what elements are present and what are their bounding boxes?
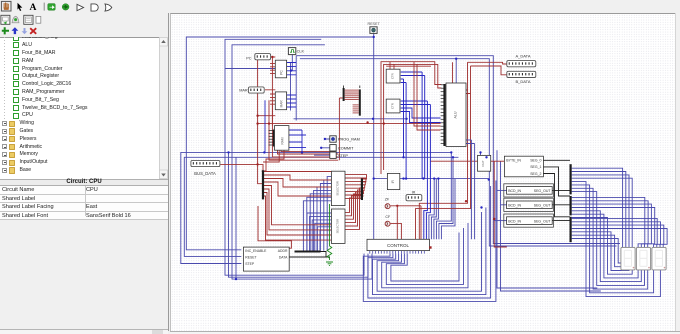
wire seg bus b1-1: [572, 172, 626, 248]
svg-text:BUS_DATA: BUS_DATA: [194, 171, 216, 176]
wire red mar feed 2: [258, 123, 441, 125]
svg-text:SELECTOR: SELECTOR: [336, 181, 340, 195]
wire red out chain: [430, 160, 478, 162]
wire control U 4: [382, 223, 468, 288]
wire red selector2 right 0: [345, 198, 362, 212]
wire byte_in outputs: [543, 159, 570, 161]
splitter bar 1: [569, 164, 571, 194]
wire alu right outputs: [466, 140, 471, 239]
wire seg bus b2-5: [572, 214, 639, 278]
rom CONTROL: [367, 239, 430, 250]
wire reg A long down 2: [401, 83, 406, 179]
wire red cf to control: [391, 223, 402, 239]
wire alu top stub2: [452, 62, 454, 83]
register OUT: [478, 155, 491, 171]
wire selector left blue 1: [324, 180, 332, 251]
wire control stair 4: [439, 157, 453, 239]
wire blue outer loop left/top: [186, 37, 373, 250]
wire selector left blue 2: [320, 184, 331, 251]
wire reg B long outputs: [401, 101, 428, 239]
wire alu top loop: [455, 59, 457, 83]
wire selector left blue 4: [314, 190, 332, 250]
wire red selector right 5: [345, 192, 363, 194]
wire seg bus b1-0: [572, 168, 623, 247]
wire ram down to bus splitter: [262, 150, 284, 171]
input pin COMMIT: [330, 145, 336, 151]
wire selector2 left blue 1: [310, 216, 332, 250]
wire red splitter fan 4: [264, 186, 331, 225]
wire seg bus b1-5: [572, 185, 654, 293]
wire red selector2 right 5: [345, 188, 362, 229]
wire red alu right down 1: [419, 62, 467, 239]
wire blue outer bottom loop: [235, 157, 237, 279]
svg-text:SEG_OUT: SEG_OUT: [534, 219, 552, 223]
wire blue vertical reset: [373, 34, 375, 240]
canvas right scroll strip: [675, 13, 680, 331]
wire red selector right 1: [345, 178, 366, 182]
wire blue right vertical 2: [501, 162, 601, 292]
wire red splitter fan 1: [264, 175, 331, 180]
svg-text:RESET: RESET: [245, 256, 256, 260]
wire pc stubs: [270, 57, 275, 74]
wire red splitter fan 3: [264, 182, 331, 196]
svg-text:IR: IR: [412, 190, 416, 194]
register B CTR: [386, 99, 400, 113]
svg-text:STEP: STEP: [245, 262, 255, 266]
wire control U 2: [373, 208, 486, 295]
wire seg bus b3-1: [572, 222, 661, 248]
svg-text:MAR: MAR: [280, 100, 284, 108]
wire seg bus b2-0: [572, 197, 645, 247]
subcircuit BCD_IN 2: [504, 198, 554, 211]
svg-text:BYTE_IN: BYTE_IN: [506, 159, 521, 163]
register IR: [387, 173, 399, 189]
wire blue loop 3: [232, 45, 372, 279]
splitter horizontal: [295, 251, 321, 253]
wire reg A long down 1: [401, 79, 404, 157]
svg-text:BCD_IN: BCD_IN: [508, 204, 521, 208]
register A CTR: [386, 69, 400, 83]
wire control stair 0: [429, 179, 434, 240]
svg-text:B_DATA: B_DATA: [516, 79, 531, 84]
wire seg bus b2-3: [572, 208, 655, 248]
wire red selector right 2: [345, 181, 365, 184]
wire selector left blue 5: [310, 194, 331, 251]
wire red selector2 right 4: [345, 190, 362, 226]
wire bcd left stubs: [497, 189, 507, 191]
wire blue mid horizontal 118.8: [294, 118, 407, 120]
splitter ladder left bar: [343, 88, 345, 101]
svg-text:BCD_IN: BCD_IN: [508, 219, 521, 223]
wire seg bus b3-2: [572, 225, 664, 247]
wire control U 1: [368, 186, 491, 298]
wire selector2 left blue 5: [320, 230, 331, 251]
wire selector2 left blue 3: [315, 223, 332, 251]
wire red selector right 0: [345, 175, 366, 179]
wire red selector right 7: [345, 197, 362, 200]
wire prog_ram stubs: [314, 139, 330, 155]
wire red splitter fan 0: [264, 171, 331, 173]
svg-text:ALU: ALU: [454, 111, 458, 118]
ladder feed left: [339, 98, 342, 160]
property header + table: [0, 179, 168, 186]
svg-text:ZF: ZF: [385, 197, 390, 201]
wire selector left blue 6: [307, 197, 332, 251]
splitter bar selector right: [361, 178, 363, 200]
wire bcd outputs: [552, 189, 570, 191]
svg-text:PROG_RAM: PROG_RAM: [338, 138, 360, 142]
svg-text:A: A: [30, 2, 37, 13]
mux SELECTOR 2: [331, 209, 345, 243]
wire selector left blue 0: [327, 177, 331, 251]
wire red selector right 4: [345, 188, 364, 190]
wire red selector right 3: [345, 185, 365, 188]
svg-text:CTR: CTR: [391, 103, 395, 109]
wire seg bus b1-4: [572, 182, 661, 297]
wire reg A long outputs: [401, 72, 422, 179]
wire blue clk down: [291, 55, 293, 71]
toolbar: [0, 0, 170, 36]
pin connector BUS_DATA: [191, 160, 220, 166]
subcircuit BCD_IN 1: [504, 184, 554, 197]
wire red right vertical 494: [494, 161, 507, 247]
clock CLK: [288, 48, 295, 55]
wire blue pc right verticals: [290, 63, 292, 111]
mux SELECTOR 1: [331, 171, 345, 205]
ladder top stub: [344, 86, 360, 89]
pin connector B_DATA: [507, 71, 536, 77]
wire selector left blue 7: [303, 201, 331, 251]
wire seg bus b2-2: [572, 204, 652, 247]
wire blue top bus to right 2: [300, 59, 617, 246]
wire selector2 left blue 2: [312, 220, 331, 251]
wire red zf to control: [391, 206, 421, 240]
wire seg bus b3-3: [572, 229, 668, 248]
wire ram right stubs: [289, 130, 306, 147]
wire control stair 1: [431, 179, 436, 240]
wire red splitter fan 6: [264, 193, 331, 236]
junction dots blue: [373, 36, 375, 38]
input pin STEP: [330, 152, 336, 158]
wire seg bus b1-2: [572, 175, 629, 248]
svg-text:CONTROL: CONTROL: [387, 243, 409, 248]
wire red splitter fan 2: [264, 179, 331, 188]
wire seg bus b1-7: [572, 192, 645, 286]
svg-text:SEG_0: SEG_0: [530, 159, 541, 163]
wire control stair 5: [441, 179, 455, 240]
memory RAM: [275, 126, 289, 151]
svg-text:SEG_OUT: SEG_OUT: [534, 204, 552, 208]
svg-text:STEP: STEP: [338, 154, 348, 158]
svg-text:OUT: OUT: [481, 160, 485, 167]
wire red selector2 right 3: [345, 192, 362, 223]
wire seg bus b2-6: [572, 218, 633, 275]
wire control stair 2: [434, 179, 439, 240]
wire seg bus b3-4: [572, 232, 629, 271]
wire selector2 left blue 4: [317, 227, 331, 251]
wire blue left vertical to control: [229, 152, 369, 277]
subcircuit BCD_IN 3: [504, 214, 554, 227]
resistor pull: [329, 204, 331, 246]
wire ram right long 1: [301, 130, 303, 153]
wire inc_enable data out: [289, 256, 330, 258]
wire control U 5: [386, 228, 463, 284]
control output pins: [369, 251, 371, 254]
wire red splitter fan 5: [264, 189, 331, 230]
svg-text:CF: CF: [385, 215, 391, 219]
wire red mar feed 1: [258, 115, 276, 117]
svg-text:SEG_1: SEG_1: [530, 165, 541, 169]
subcircuit INC_ENABLE: [243, 247, 289, 271]
svg-text:CTR: CTR: [391, 73, 395, 79]
svg-text:PC: PC: [280, 70, 284, 75]
wire red splitter fan 7: [264, 196, 331, 240]
wire seg bus b1-6: [572, 188, 648, 289]
register MAR: [275, 92, 286, 110]
svg-text:MAR: MAR: [239, 89, 248, 93]
alu input comb: [443, 84, 445, 146]
wire out top stubs: [481, 152, 487, 157]
wire red reg loop: [381, 62, 441, 174]
canvas: [170, 13, 675, 331]
wire seg bus b2-1: [572, 201, 649, 248]
input pin RESET: [370, 27, 377, 34]
wire seg bus b1-3: [572, 178, 633, 247]
wire red inc addr feed: [258, 206, 291, 248]
wire blue bus mid horizontal 1: [181, 152, 452, 263]
svg-text:ADDR: ADDR: [278, 249, 288, 253]
ground: [326, 262, 333, 266]
input pin PROG_RAM: [330, 136, 336, 142]
svg-text:SELECTOR: SELECTOR: [336, 219, 340, 233]
svg-text:CLK: CLK: [297, 50, 305, 54]
svg-text:INC_ENABLE: INC_ENABLE: [245, 249, 267, 253]
wire red alu right down 2: [416, 66, 471, 239]
splitter ladder right bar: [359, 89, 361, 115]
wire reg B to alu comb: [401, 108, 441, 118]
wire red vertical 257: [258, 57, 263, 184]
svg-text:SEG_2: SEG_2: [530, 172, 541, 176]
wire seg bus b2-4: [572, 211, 642, 282]
wire selector2 left blue 0: [307, 213, 331, 251]
wire red pc connector down: [271, 57, 273, 126]
svg-text:SEG_OUT: SEG_OUT: [534, 189, 552, 193]
wire mar stubs: [265, 90, 275, 104]
wire control U 3: [377, 212, 481, 291]
wire seg bus b3-0: [572, 218, 658, 247]
wire blue bus mid horizontal 2: [184, 157, 458, 256]
svg-text:PC: PC: [246, 56, 252, 60]
wire blue loop 2: [225, 39, 364, 275]
wire blue top bus to right 1: [296, 56, 620, 244]
svg-text:A_DATA: A_DATA: [516, 53, 531, 58]
svg-text:COMMIT: COMMIT: [338, 147, 354, 151]
panel divider: [168, 13, 169, 331]
wire blue v265: [264, 100, 266, 153]
wire blue IR horizontal: [374, 178, 489, 180]
wire red selector2 right 1: [345, 196, 362, 216]
bottom status strip: [170, 331, 680, 334]
splitter bar 3: [569, 217, 571, 242]
seven segment display 2: [636, 247, 650, 270]
register PC: [275, 60, 286, 78]
ram left comb: [273, 130, 275, 147]
left tree panel: [0, 37, 159, 179]
svg-text:BCD_IN: BCD_IN: [508, 189, 521, 193]
alu ALU: [446, 83, 466, 147]
tree scrollbar: [159, 37, 168, 179]
wire red comb feeds: [435, 85, 441, 89]
wire control U 0: [363, 181, 496, 302]
wire blue right vertical to displays: [497, 150, 597, 288]
wire selector left blue 3: [317, 187, 331, 251]
svg-text:RAM: RAM: [280, 137, 284, 144]
svg-text:RESET: RESET: [367, 22, 380, 26]
seven segment display 3: [652, 247, 666, 270]
junction dots red: [256, 115, 258, 117]
wire blue pc input: [225, 68, 275, 70]
wire red selector right 6: [345, 195, 363, 196]
wire red bus_data to splitter: [220, 165, 263, 171]
wire control stair 3: [436, 152, 451, 239]
subcircuit BYTE_IN: [504, 156, 543, 177]
splitter bar 2: [569, 196, 571, 215]
splitter bar bus_data: [262, 170, 264, 199]
wire control U 6: [391, 233, 459, 282]
wire red ram to ladder: [269, 100, 338, 160]
wire red selector2 right 2: [345, 194, 362, 219]
svg-text:DATA: DATA: [279, 256, 288, 260]
wire seg bus b3-6: [572, 239, 623, 270]
wire seg bus b3-5: [572, 235, 626, 270]
seven segment display 1: [621, 247, 635, 270]
